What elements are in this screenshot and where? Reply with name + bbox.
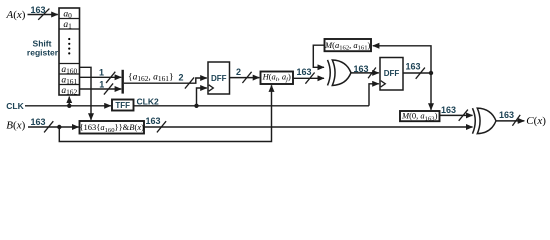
svg-text:A(x): A(x) <box>6 9 26 21</box>
svg-text:163: 163 <box>146 116 161 126</box>
svg-text:163: 163 <box>441 105 456 115</box>
svg-text:TFF: TFF <box>115 101 130 110</box>
svg-text:1: 1 <box>99 79 104 89</box>
svg-text:CLK2: CLK2 <box>137 96 159 106</box>
svg-text:CLK: CLK <box>6 101 24 111</box>
svg-text:163: 163 <box>499 110 514 120</box>
svg-text:1: 1 <box>99 68 104 78</box>
svg-text:C(x): C(x) <box>526 115 546 127</box>
svg-text:a162​: a162​ <box>61 86 77 97</box>
svg-text:a160​: a160​ <box>61 65 77 76</box>
svg-text:{a162​, a161​}: {a162​, a161​} <box>128 72 174 83</box>
svg-text:163: 163 <box>31 117 46 127</box>
svg-text:2: 2 <box>179 72 184 82</box>
svg-text:a161​: a161​ <box>61 75 77 86</box>
svg-text:163: 163 <box>354 64 369 74</box>
svg-text:163: 163 <box>406 62 421 72</box>
svg-text:DFF: DFF <box>384 69 400 78</box>
svg-text:register: register <box>27 48 59 58</box>
svg-text:DFF: DFF <box>211 74 227 83</box>
svg-text:2: 2 <box>236 67 241 77</box>
svg-text:a1​: a1​ <box>63 20 72 31</box>
svg-text:B(x): B(x) <box>6 120 25 132</box>
svg-text:163: 163 <box>297 67 312 77</box>
svg-text:a0​: a0​ <box>63 10 72 21</box>
svg-text:163: 163 <box>31 5 46 15</box>
